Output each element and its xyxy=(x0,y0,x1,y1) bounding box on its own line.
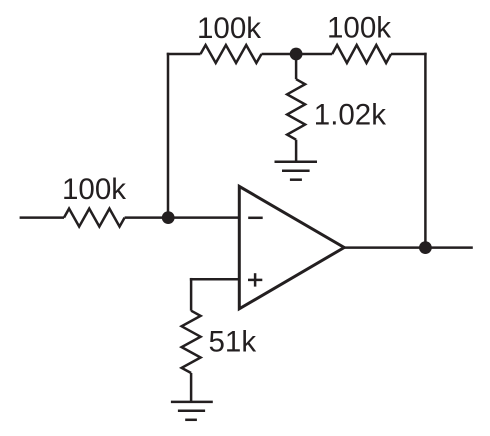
resistor R2 100k (top left, horizontal) xyxy=(201,45,262,63)
svg-text:100k: 100k xyxy=(327,12,391,45)
U1 plus sign (non-inverting input) xyxy=(248,273,262,286)
op-amp U1 triangle xyxy=(239,186,344,308)
wire node B down to R4 xyxy=(295,54,298,79)
wire output xyxy=(344,246,473,249)
wire R4 to ground xyxy=(295,140,298,162)
wire R5 to ground xyxy=(190,373,193,402)
node B junction dot (top T junction) xyxy=(290,48,303,61)
wire input resistor to op-amp inverting input xyxy=(125,216,240,219)
svg-text:100k: 100k xyxy=(197,12,261,45)
wire top left horizontal xyxy=(167,53,201,56)
wire non-inverting vertical down xyxy=(190,278,193,311)
wire feedback left vertical xyxy=(167,53,170,218)
node A junction dot at inverting input xyxy=(162,211,175,224)
resistor R4 1.02k (vertical) xyxy=(287,79,305,140)
wire R3 to top right corner xyxy=(391,53,427,56)
wire right vertical to output xyxy=(424,53,427,248)
resistor R3 100k (top right, horizontal) xyxy=(332,45,391,63)
node C junction dot at output xyxy=(419,241,432,254)
wire node B to R3 xyxy=(296,53,332,56)
svg-text:51k: 51k xyxy=(209,326,257,359)
wire input left xyxy=(20,216,64,219)
U1 minus sign (inverting input) xyxy=(248,217,263,220)
svg-text:100k: 100k xyxy=(62,173,126,206)
resistor R5 51k (vertical) xyxy=(182,311,201,373)
ground G1 (under 1.02k) xyxy=(275,162,318,180)
resistor R1 100k (input, horizontal) xyxy=(64,209,125,227)
wire non-inverting input horizontal xyxy=(190,278,239,281)
svg-text:1.02k: 1.02k xyxy=(314,98,386,131)
wire R2 to node B xyxy=(262,53,297,56)
ground G2 (under 51k) xyxy=(171,402,213,420)
